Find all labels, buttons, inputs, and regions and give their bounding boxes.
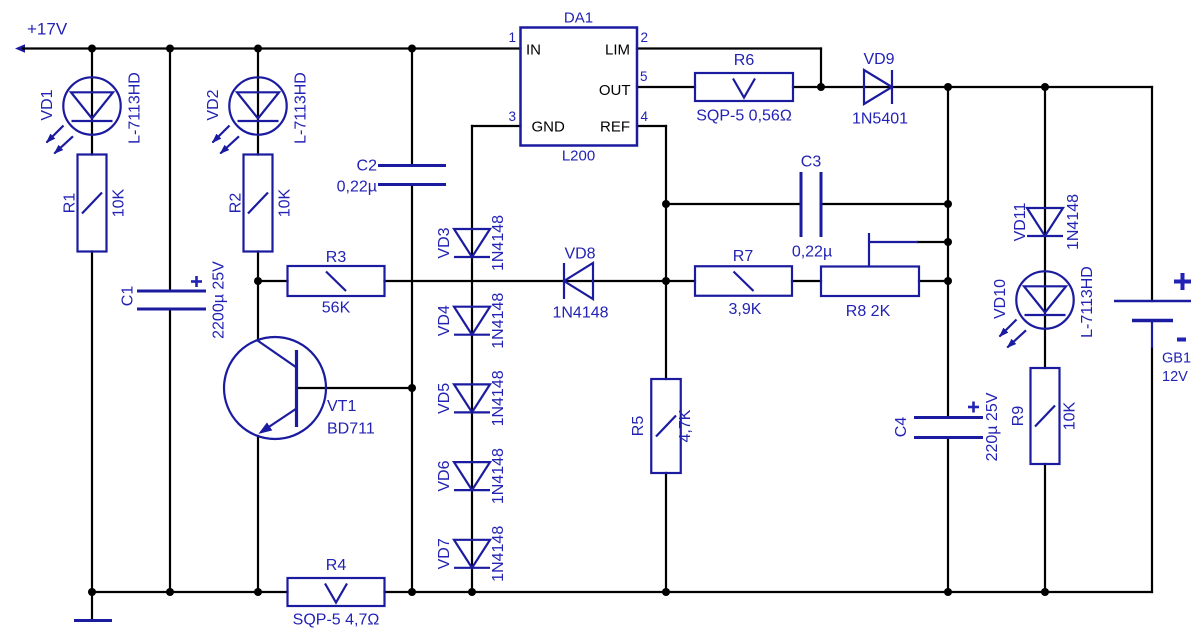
- junction REF net / C3 wire: [662, 200, 670, 208]
- node +17V arrow terminal: [15, 44, 25, 53]
- junction bottom rail / VT1 emitter: [254, 588, 262, 596]
- wire C2 column lower: [411, 185, 413, 593]
- svg-text:1N4148: 1N4148: [490, 293, 507, 349]
- svg-text:1N5401: 1N5401: [852, 111, 908, 128]
- svg-text:R7: R7: [733, 248, 754, 265]
- svg-text:2200µ 25V: 2200µ 25V: [211, 261, 228, 339]
- svg-text:VD5: VD5: [436, 383, 453, 414]
- resistor R4: [288, 578, 385, 606]
- svg-text:DA1: DA1: [564, 10, 593, 27]
- svg-text:1N4148: 1N4148: [490, 215, 507, 271]
- svg-text:1N4148: 1N4148: [490, 370, 507, 426]
- transistor VT1: [224, 337, 326, 439]
- svg-text:R4: R4: [326, 557, 347, 574]
- wire battery column lower: [1151, 348, 1153, 592]
- wire VD1 column lower (below R1): [91, 252, 93, 593]
- wire R7 to R8: [792, 280, 821, 282]
- svg-text:LIM: LIM: [605, 42, 630, 59]
- svg-text:VD11: VD11: [1012, 202, 1029, 241]
- wire C3 left segment: [666, 203, 801, 205]
- resistor R9: [1031, 368, 1060, 464]
- svg-text:VD2: VD2: [205, 89, 222, 120]
- svg-text:L-7113HD: L-7113HD: [127, 72, 144, 144]
- svg-text:VD4: VD4: [436, 305, 453, 336]
- svg-text:VD1: VD1: [39, 89, 56, 120]
- svg-text:R6: R6: [734, 52, 755, 69]
- wire VT1 emitter down: [257, 436, 259, 592]
- junction base / C2 column: [408, 384, 416, 392]
- wire C1 column upper: [169, 49, 171, 292]
- junction bottom rail / C1: [166, 588, 174, 596]
- svg-text:L200: L200: [562, 148, 595, 165]
- svg-text:2: 2: [641, 30, 649, 45]
- svg-text:R2: R2: [228, 193, 245, 214]
- svg-text:220µ 25V: 220µ 25V: [984, 392, 1001, 461]
- svg-text:C4: C4: [893, 417, 910, 438]
- diode VD8: [564, 263, 593, 299]
- wire LIM corner down to OUT net: [820, 49, 822, 88]
- LED VD10: [1000, 271, 1074, 347]
- wire diode chain vertical (GND net): [471, 126, 473, 592]
- svg-text:L-7113HD: L-7113HD: [293, 72, 310, 144]
- wire DA1 REF pin right: [637, 125, 666, 127]
- svg-text:0,22µ: 0,22µ: [792, 244, 832, 261]
- wire REF net vertical upper: [665, 126, 667, 379]
- wire DA1 GND pin left: [472, 125, 521, 127]
- svg-text:VD9: VD9: [863, 51, 894, 68]
- junction REF net / R7 wire: [662, 277, 670, 285]
- wire REF net vertical lower (below R5): [665, 473, 667, 592]
- wire VD11 column vertical lower (below R9): [1044, 464, 1046, 592]
- svg-text:10K: 10K: [111, 188, 128, 217]
- svg-text:56K: 56K: [322, 300, 351, 317]
- junction bottom rail / ground stub: [88, 588, 96, 596]
- junction OUT net / right column: [944, 83, 952, 91]
- wire bottom rail right of R4: [385, 591, 1153, 593]
- wire R3 to R7 (through VD8): [385, 280, 696, 282]
- wire R6 to battery rail (through VD9): [793, 86, 1152, 88]
- wire VT1 base to C2 column: [297, 387, 413, 389]
- capacitor C1: [137, 276, 206, 309]
- svg-text:REF: REF: [600, 119, 630, 136]
- junction bottom rail / C4 column: [944, 588, 952, 596]
- wire VD11 column vertical upper: [1044, 87, 1046, 368]
- svg-text:VD10: VD10: [992, 279, 1009, 319]
- svg-text:+17V: +17V: [27, 20, 68, 39]
- svg-text:IN: IN: [526, 42, 541, 59]
- LED VD2: [213, 77, 287, 153]
- svg-text:BD711: BD711: [327, 421, 375, 438]
- svg-text:1N4148: 1N4148: [490, 526, 507, 582]
- wire R8 wiper to right column (black part): [918, 241, 948, 243]
- svg-text:10K: 10K: [277, 188, 294, 217]
- LED VD1: [47, 77, 121, 153]
- svg-text:4: 4: [641, 109, 649, 124]
- junction OUT net / VD11 column: [1041, 83, 1049, 91]
- resistor R5: [651, 379, 681, 473]
- svg-text:R1: R1: [62, 193, 79, 214]
- wire R8 to right column: [919, 280, 948, 282]
- junction C3 wire / right column: [944, 200, 952, 208]
- junction R2 / R3 / VT1 collector: [254, 277, 262, 285]
- svg-text:5: 5: [640, 69, 648, 84]
- wire DA1 LIM to corner: [637, 47, 821, 49]
- wire R2 to collector node: [257, 252, 259, 341]
- diode VD5: [454, 384, 490, 412]
- wire R2 node to R3: [258, 280, 288, 282]
- wire C2 column upper: [411, 49, 413, 166]
- junction top rail / C1: [166, 45, 174, 53]
- svg-text:SQP-5 0,56Ω: SQP-5 0,56Ω: [696, 108, 792, 125]
- diode VD9: [864, 70, 892, 104]
- resistor R2: [244, 155, 273, 252]
- wire right column vertical upper (to C4): [947, 87, 949, 418]
- junction R7 net / right column: [944, 277, 952, 285]
- resistor R6: [695, 73, 793, 101]
- wire VD1 column upper: [91, 49, 93, 155]
- svg-text:OUT: OUT: [599, 82, 631, 99]
- potentiometer R8: [821, 233, 919, 296]
- svg-text:1N4148: 1N4148: [552, 305, 608, 322]
- svg-text:4,7K: 4,7K: [677, 409, 694, 442]
- svg-text:C3: C3: [801, 154, 822, 171]
- wire C3 right segment: [821, 203, 948, 205]
- diode VD3: [454, 229, 490, 257]
- capacitor C2: [378, 166, 446, 185]
- wire battery column upper: [1151, 87, 1153, 301]
- svg-text:0,22µ: 0,22µ: [337, 179, 377, 196]
- svg-text:R3: R3: [326, 249, 347, 266]
- ground: [91, 592, 93, 619]
- svg-text:R9: R9: [1010, 406, 1027, 427]
- junction wiper wire / right column: [944, 238, 952, 246]
- svg-text:R8 2K: R8 2K: [846, 303, 891, 320]
- svg-text:12V: 12V: [1162, 369, 1188, 385]
- diode VD6: [454, 462, 490, 490]
- op-amp U1 regulator DA1 L200 box: [521, 28, 638, 146]
- junction bottom rail / C2: [408, 588, 416, 596]
- svg-text:VT1: VT1: [327, 398, 356, 415]
- wire top rail +17V to DA1 IN: [23, 47, 521, 49]
- svg-text:C2: C2: [357, 158, 378, 175]
- capacitor C3: [801, 172, 821, 237]
- svg-text:1N4148: 1N4148: [1065, 194, 1082, 250]
- junction top rail / VD2: [254, 45, 262, 53]
- diode VD7: [454, 540, 490, 568]
- wire right column vertical lower (below C4): [947, 438, 949, 593]
- svg-text:3: 3: [508, 109, 516, 124]
- wire bottom rail left of R4: [92, 591, 288, 593]
- resistor R3: [288, 266, 385, 296]
- junction LIM / OUT net: [817, 83, 825, 91]
- svg-text:C1: C1: [120, 286, 137, 307]
- diode VD4: [454, 307, 490, 335]
- svg-text:10K: 10K: [1062, 401, 1079, 430]
- junction top rail / VD1: [88, 45, 96, 53]
- svg-text:1: 1: [508, 30, 516, 45]
- junction bottom rail / R9 column: [1041, 588, 1049, 596]
- svg-text:VD3: VD3: [436, 227, 453, 258]
- diode VD11: [1027, 208, 1063, 236]
- svg-text:VD8: VD8: [564, 246, 595, 263]
- svg-text:GND: GND: [532, 119, 566, 136]
- resistor R7: [695, 266, 792, 296]
- svg-text:1N4148: 1N4148: [490, 448, 507, 504]
- junction top rail / C2: [408, 45, 416, 53]
- svg-text:3,9K: 3,9K: [729, 301, 762, 318]
- wire DA1 OUT to R6: [637, 86, 695, 88]
- junction bottom rail / diode chain: [468, 588, 476, 596]
- svg-text:VD7: VD7: [436, 538, 453, 569]
- wire VD2 column upper: [257, 49, 259, 155]
- capacitor C4: [914, 402, 983, 438]
- wire C1 column lower: [169, 309, 171, 592]
- battery GB1: [1114, 273, 1191, 348]
- svg-text:L-7113HD: L-7113HD: [1079, 266, 1096, 338]
- svg-text:SQP-5 4,7Ω: SQP-5 4,7Ω: [293, 612, 380, 629]
- svg-text:R5: R5: [630, 416, 647, 437]
- svg-text:VD6: VD6: [436, 460, 453, 491]
- svg-text:GB1: GB1: [1162, 351, 1191, 367]
- resistor R1: [78, 155, 107, 252]
- junction bottom rail / R5: [662, 588, 670, 596]
